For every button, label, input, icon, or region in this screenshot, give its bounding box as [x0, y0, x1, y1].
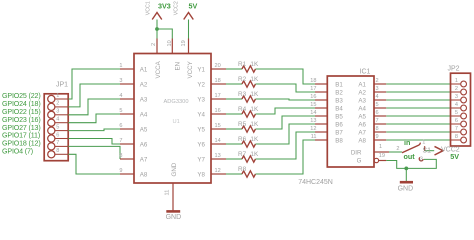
JP2 pin 1	[451, 83, 461, 85]
svg-text:Y4: Y4	[197, 111, 205, 118]
svg-text:Y7: Y7	[197, 156, 205, 163]
svg-text:B1: B1	[335, 81, 343, 88]
svg-text:GND: GND	[166, 214, 182, 221]
svg-text:R5: R5	[238, 121, 247, 128]
IC1 pin A4 (pin 5)	[374, 107, 386, 109]
U1 pin A3 (pin 4)	[120, 98, 134, 100]
JP2 pin 7	[451, 131, 461, 133]
svg-text:3: 3	[376, 86, 379, 92]
IC IC1 74HC245N body	[327, 76, 374, 167]
wire R4 to IC1 B4	[256, 108, 316, 114]
svg-text:4: 4	[376, 94, 379, 100]
svg-text:18: 18	[310, 78, 316, 84]
resistor R2	[242, 81, 255, 87]
resistor R3	[242, 96, 255, 102]
svg-text:3: 3	[56, 109, 59, 115]
svg-text:14: 14	[215, 138, 221, 144]
svg-text:8: 8	[56, 148, 59, 154]
S1 throw contact 1 (in)	[424, 146, 426, 151]
svg-text:GPIO4 (7): GPIO4 (7)	[2, 148, 33, 156]
svg-text:1K: 1K	[250, 106, 259, 113]
wire IC1 A3 to JP2-3	[386, 99, 450, 101]
wire JP1-5 to U1 A5	[68, 129, 120, 131]
wire U1 Y8 to R8	[226, 173, 242, 175]
svg-text:A8: A8	[140, 171, 148, 178]
wire JP1-2 to U1 A2	[68, 84, 120, 107]
svg-text:Y5: Y5	[197, 126, 205, 133]
svg-text:1K: 1K	[250, 61, 259, 68]
svg-text:1: 1	[422, 140, 425, 146]
svg-text:R3: R3	[238, 91, 247, 98]
svg-text:G: G	[357, 157, 362, 164]
wire JP1-7 to U1 A7	[68, 146, 120, 159]
U1 pin A2 (pin 3)	[120, 83, 134, 85]
svg-text:4: 4	[455, 102, 458, 108]
svg-text:1: 1	[455, 78, 458, 84]
U1 pin A1 (pin 1)	[120, 68, 134, 70]
svg-text:20: 20	[215, 63, 221, 69]
wire VCC1 to EN	[157, 29, 172, 39]
IC1 pin B6 (pin 13)	[315, 123, 327, 125]
svg-text:A5: A5	[140, 126, 148, 133]
wire U1 Y3 to R3	[226, 98, 242, 100]
IC1 pin B7 (pin 12)	[315, 131, 327, 133]
wire JP1-3 to U1 A3	[68, 99, 120, 115]
svg-text:A2: A2	[140, 81, 148, 88]
svg-text:VCC2: VCC2	[173, 1, 179, 15]
JP1 pin 4	[55, 122, 68, 124]
svg-text:GPIO18 (12): GPIO18 (12)	[2, 140, 41, 148]
IC1 pin B2 (pin 17)	[315, 91, 327, 93]
svg-text:4: 4	[56, 117, 59, 123]
svg-text:A6: A6	[358, 121, 366, 128]
svg-text:Y2: Y2	[197, 81, 205, 88]
svg-text:A6: A6	[140, 141, 148, 148]
wire junction to GND	[405, 168, 407, 181]
svg-text:DIR: DIR	[351, 149, 362, 156]
IC1 pin A3 (pin 4)	[374, 99, 386, 101]
svg-text:A3: A3	[140, 96, 148, 103]
svg-text:A1: A1	[358, 81, 366, 88]
wire S1 out / IC1 G / GND net	[386, 159, 436, 168]
svg-text:2: 2	[151, 43, 157, 46]
svg-text:in: in	[404, 138, 410, 147]
JP2 pin 2	[451, 91, 461, 93]
wire IC1 A7 to JP2-7	[386, 131, 450, 133]
IC1 pin A2 (pin 3)	[374, 91, 386, 93]
U1 pin GND (pin 11)	[172, 183, 174, 211]
svg-text:GPIO24 (18): GPIO24 (18)	[2, 100, 41, 108]
U1 pin Y1 (pin 20)	[211, 68, 226, 70]
svg-text:5: 5	[119, 108, 122, 114]
JP1 pin 3	[55, 114, 68, 116]
switch S1 lever	[402, 143, 420, 153]
svg-text:1K: 1K	[250, 91, 259, 98]
wire S1 in to VCC2	[425, 150, 435, 152]
wire U1 Y7 to R7	[226, 158, 242, 160]
IC1 pin B8 (pin 11)	[315, 139, 327, 141]
wire R2 to IC1 B2	[256, 84, 316, 92]
wire R5 to IC1 B5	[256, 116, 316, 129]
JP1 pin 8	[55, 153, 68, 155]
svg-text:A2: A2	[358, 89, 366, 96]
IC1 pin B3 (pin 16)	[315, 99, 327, 101]
svg-text:ADG3300: ADG3300	[164, 99, 189, 105]
svg-text:S1: S1	[423, 148, 432, 155]
svg-text:12: 12	[215, 168, 221, 174]
svg-text:11: 11	[311, 134, 317, 140]
svg-text:B7: B7	[335, 129, 343, 136]
U1 pin Y4 (pin 16)	[211, 113, 226, 115]
wire U1 Y5 to R5	[226, 128, 242, 130]
U1 pin Y8 (pin 12)	[211, 173, 226, 175]
svg-text:5V: 5V	[450, 152, 459, 161]
U1 pin VCCA (pin 2)	[156, 39, 158, 54]
svg-text:18: 18	[215, 78, 221, 84]
U1 pin Y2 (pin 18)	[211, 83, 226, 85]
svg-text:B8: B8	[335, 137, 343, 144]
wire R6 to IC1 B6	[256, 124, 316, 144]
svg-text:A3: A3	[358, 97, 366, 104]
svg-text:A5: A5	[358, 113, 366, 120]
svg-text:1K: 1K	[250, 76, 259, 83]
IC1 pin A7 (pin 8)	[374, 131, 386, 133]
svg-text:3: 3	[119, 78, 122, 84]
svg-text:5V: 5V	[189, 2, 198, 11]
svg-text:1K: 1K	[250, 151, 259, 158]
U1 pin EN (pin 10)	[171, 39, 173, 54]
svg-text:7: 7	[56, 140, 59, 146]
svg-text:GPIO25 (22): GPIO25 (22)	[2, 92, 41, 100]
svg-text:R1: R1	[238, 61, 247, 68]
svg-text:16: 16	[215, 108, 221, 114]
U1 pin Y3 (pin 17)	[211, 98, 226, 100]
svg-text:JP2: JP2	[448, 66, 460, 73]
svg-text:2: 2	[396, 146, 399, 152]
svg-text:B5: B5	[335, 113, 343, 120]
svg-text:B6: B6	[335, 121, 343, 128]
wire JP1-4 to U1 A4	[68, 114, 120, 123]
connector JP1 body	[44, 94, 68, 161]
JP1 pin 7	[55, 145, 68, 147]
U1 pin A4 (pin 5)	[120, 113, 134, 115]
svg-text:6: 6	[119, 123, 122, 129]
IC1 pin DIR (pin 1)	[374, 151, 389, 153]
JP2 pin 3	[451, 99, 461, 101]
op IC U1 ADG3300 body	[134, 54, 211, 184]
svg-text:IC1: IC1	[360, 69, 371, 76]
svg-text:A4: A4	[358, 105, 366, 112]
wire VCC2 to VCCY	[188, 20, 190, 39]
svg-text:R2: R2	[238, 76, 247, 83]
JP2 pin 5	[451, 115, 461, 117]
JP1 pin 1	[55, 98, 68, 100]
IC1 pin A6 (pin 7)	[374, 123, 386, 125]
svg-text:GND: GND	[398, 186, 414, 193]
wire IC1 A6 to JP2-6	[386, 123, 450, 125]
svg-text:9: 9	[376, 134, 379, 140]
U1 pin Y6 (pin 14)	[211, 143, 226, 145]
U1 pin Y7 (pin 13)	[211, 158, 226, 160]
svg-text:14: 14	[310, 110, 316, 116]
svg-text:13: 13	[215, 153, 221, 159]
connector JP2 body	[451, 73, 471, 146]
junction VCC1/EN	[155, 27, 159, 31]
svg-text:8: 8	[119, 153, 122, 159]
svg-text:2: 2	[56, 101, 59, 107]
U1 pin Y5 (pin 15)	[211, 128, 226, 130]
svg-text:6: 6	[455, 118, 458, 124]
svg-text:Y1: Y1	[197, 66, 205, 73]
svg-text:8: 8	[455, 134, 458, 140]
wire JP1-1 to U1 A1	[68, 69, 120, 99]
wire IC1 A5 to JP2-5	[386, 115, 450, 117]
svg-text:17: 17	[310, 86, 316, 92]
svg-text:19: 19	[379, 153, 385, 159]
svg-text:11: 11	[165, 190, 171, 196]
wire IC1 DIR to S1 pole	[389, 151, 402, 153]
svg-text:7: 7	[455, 126, 458, 132]
U1 pin A7 (pin 8)	[120, 158, 134, 160]
svg-text:R7: R7	[238, 151, 247, 158]
svg-text:GPIO17 (11): GPIO17 (11)	[2, 132, 40, 140]
resistor R7	[242, 156, 255, 162]
svg-text:GND: GND	[171, 162, 178, 176]
JP1 pin 5	[55, 130, 68, 132]
svg-text:1: 1	[56, 93, 59, 99]
svg-text:VCC1: VCC1	[145, 1, 151, 15]
IC1 pin A5 (pin 6)	[374, 115, 386, 117]
wire VCC1 to VCCA	[156, 20, 158, 39]
wire R3 to IC1 B3	[256, 99, 316, 100]
ground GND bottom right	[400, 181, 413, 184]
svg-text:9: 9	[119, 168, 122, 174]
svg-text:A4: A4	[140, 111, 148, 118]
JP2 pin 4	[451, 107, 461, 109]
U1 pin VCCY (pin 19)	[188, 39, 190, 54]
svg-text:VCCA: VCCA	[155, 60, 162, 78]
IC1 pin G (pin 19) with inversion bubble	[374, 158, 378, 162]
junction G net to GND	[404, 167, 408, 171]
wire R7 to IC1 B7	[256, 132, 316, 159]
wire R1 to IC1 B1	[256, 69, 316, 84]
svg-text:3: 3	[455, 94, 458, 100]
wire IC1 A1 to JP2-1	[386, 83, 450, 85]
svg-text:3: 3	[420, 156, 423, 162]
JP2 pin 8	[451, 139, 461, 141]
svg-text:15: 15	[215, 123, 221, 129]
svg-text:8: 8	[376, 126, 379, 132]
svg-text:A7: A7	[140, 156, 148, 163]
wire U1 Y4 to R4	[226, 113, 242, 115]
svg-text:2: 2	[376, 78, 379, 84]
svg-text:B2: B2	[335, 89, 343, 96]
svg-text:12: 12	[310, 126, 316, 132]
svg-text:Y3: Y3	[197, 96, 205, 103]
svg-text:A7: A7	[358, 129, 366, 136]
wire IC1 A4 to JP2-4	[386, 107, 450, 109]
resistor R6	[242, 141, 255, 147]
svg-text:Y8: Y8	[197, 171, 205, 178]
svg-text:A1: A1	[140, 66, 148, 73]
svg-text:74HC245N: 74HC245N	[298, 179, 333, 186]
svg-text:JP1: JP1	[56, 82, 68, 89]
JP2 pin 6	[451, 123, 461, 125]
U1 pin A8 (pin 9)	[120, 173, 134, 175]
svg-text:Y6: Y6	[197, 141, 205, 148]
svg-text:2: 2	[455, 86, 458, 92]
svg-text:U1: U1	[173, 119, 180, 125]
IC1 pin B4 (pin 15)	[315, 107, 327, 109]
U1 pin A6 (pin 7)	[120, 143, 134, 145]
JP1 pin 6	[55, 138, 68, 140]
svg-text:5: 5	[376, 102, 379, 108]
ground GND under U1	[166, 210, 180, 213]
svg-text:out: out	[404, 152, 416, 161]
svg-text:19: 19	[181, 40, 187, 46]
svg-text:1K: 1K	[250, 121, 259, 128]
svg-text:R8: R8	[238, 166, 247, 173]
resistor R5	[242, 126, 255, 132]
wire IC1 A8 to JP2-8	[386, 139, 450, 141]
wire U1 Y6 to R6	[226, 143, 242, 145]
IC1 pin B5 (pin 14)	[315, 115, 327, 117]
supply VCC1 arrow	[152, 13, 162, 20]
supply VCC2 arrow (top)	[184, 13, 194, 20]
S1 throw contact 3 (out)	[419, 157, 423, 161]
svg-text:7: 7	[376, 118, 379, 124]
svg-text:EN: EN	[175, 62, 182, 71]
supply VCC2 arrow (right)	[435, 146, 444, 155]
wire JP1-6 to U1 A6	[68, 139, 120, 145]
wire U1 Y2 to R2	[226, 83, 242, 85]
svg-text:5: 5	[455, 110, 458, 116]
svg-text:R4: R4	[238, 106, 247, 113]
IC1 pin B1 (pin 18)	[315, 83, 327, 85]
IC1 pin A8 (pin 9)	[374, 139, 386, 141]
svg-text:GPIO22 (15): GPIO22 (15)	[2, 108, 41, 116]
wire U1 Y1 to R1	[226, 68, 242, 70]
svg-text:13: 13	[310, 118, 316, 124]
resistor R8	[242, 171, 255, 177]
svg-text:7: 7	[119, 138, 122, 144]
svg-text:16: 16	[310, 94, 316, 100]
svg-text:4: 4	[119, 93, 122, 99]
resistor R4	[242, 111, 255, 117]
svg-text:R6: R6	[238, 136, 247, 143]
wire JP1-8 to U1 A8	[68, 154, 120, 174]
resistor R1	[242, 66, 255, 72]
svg-text:1: 1	[119, 63, 122, 69]
svg-text:1K: 1K	[250, 136, 259, 143]
svg-text:17: 17	[215, 93, 221, 99]
svg-text:6: 6	[56, 132, 59, 138]
IC1 pin A1 (pin 2)	[374, 83, 386, 85]
svg-text:3V3: 3V3	[158, 2, 171, 11]
JP1 pin 2	[55, 106, 68, 108]
svg-text:GPIO23 (16): GPIO23 (16)	[2, 116, 41, 124]
svg-text:1: 1	[379, 144, 382, 150]
U1 pin A5 (pin 6)	[120, 128, 134, 130]
svg-text:B3: B3	[335, 97, 343, 104]
svg-text:VCCY: VCCY	[187, 61, 194, 78]
wire R8 to IC1 B8	[256, 140, 316, 174]
svg-text:B4: B4	[335, 105, 343, 112]
wire IC1 A2 to JP2-2	[386, 91, 450, 93]
svg-text:5: 5	[56, 124, 59, 130]
svg-text:A8: A8	[358, 137, 366, 144]
svg-text:GPIO27 (13): GPIO27 (13)	[2, 124, 41, 132]
svg-text:6: 6	[376, 110, 379, 116]
svg-text:10: 10	[167, 40, 173, 46]
svg-text:15: 15	[310, 102, 316, 108]
